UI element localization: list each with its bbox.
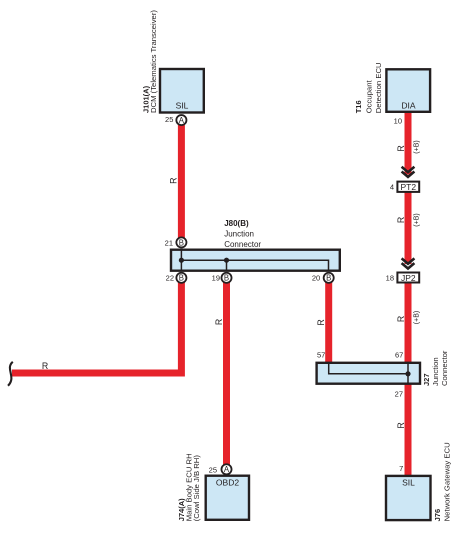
- junction connector J27: [317, 363, 420, 384]
- junction dot at J80 21-22: [179, 258, 184, 263]
- wire label (+B) (T16 to PT2): [413, 140, 420, 153]
- wire label R (JP2 to J27): [396, 316, 406, 322]
- svg-text:A: A: [179, 116, 185, 125]
- svg-text:Network Gateway ECU: Network Gateway ECU: [443, 442, 452, 521]
- svg-text:SIL: SIL: [176, 101, 189, 111]
- pin 57 of J27: [317, 351, 325, 360]
- wire R from J80 pin 22 down and left off-page: [12, 278, 181, 373]
- svg-text:J27: J27: [422, 373, 431, 386]
- wire R from J80 pin 19 to J74 OBD2 pin 25: [223, 278, 230, 466]
- pin 21 circle B of J80: [165, 237, 187, 247]
- label T16 Occupant Detection ECU: [354, 62, 383, 113]
- ECU box T16 DIA: [386, 69, 430, 112]
- svg-text:57: 57: [317, 351, 325, 360]
- svg-text:A: A: [224, 465, 230, 474]
- arrow into PT2: [402, 167, 415, 177]
- wire label R (pin 19 drop): [214, 319, 224, 325]
- J80 internal bus to pin 20: [181, 260, 328, 271]
- svg-text:DIA: DIA: [401, 101, 416, 111]
- svg-text:67: 67: [395, 351, 403, 360]
- svg-text:4: 4: [390, 182, 394, 191]
- svg-text:Connector: Connector: [440, 350, 449, 386]
- wire label R (horizontal wire): [42, 361, 48, 371]
- svg-text:JP2: JP2: [401, 273, 416, 283]
- svg-text:T16: T16: [354, 100, 363, 113]
- ECU box J101(A) SIL: [160, 69, 204, 113]
- junction connector J80(B): [171, 250, 340, 271]
- wire R from J80 pin 20 to J27 pin 57: [325, 278, 332, 363]
- ECU box J76 SIL: [386, 476, 431, 520]
- svg-text:J76: J76: [433, 509, 442, 522]
- svg-text:21: 21: [165, 238, 173, 247]
- wire label R (pin 20 drop): [316, 319, 326, 325]
- J80 internal wire 21-22: [180, 249, 182, 271]
- svg-text:B: B: [224, 274, 229, 283]
- svg-text:DCM (Telematics Transceiver): DCM (Telematics Transceiver): [149, 10, 158, 113]
- connector PT2 pin 4: [390, 182, 419, 193]
- svg-text:B: B: [326, 274, 331, 283]
- svg-text:(+B): (+B): [413, 311, 420, 324]
- J27 internal through wire 67-27: [407, 362, 409, 384]
- label J76 Network Gateway ECU: [433, 442, 452, 521]
- wire label R (J101 to J80): [168, 178, 178, 184]
- svg-text:20: 20: [312, 274, 320, 283]
- label J74(A) Main Body ECU RH (Cowl Side J/B RH): [177, 453, 201, 521]
- wire label R (PT2 to JP2): [396, 217, 406, 223]
- wire label (+B) (JP2 to J27): [413, 311, 420, 324]
- off-page break symbol: [8, 362, 13, 386]
- svg-text:R: R: [396, 217, 406, 223]
- svg-text:R: R: [396, 316, 406, 322]
- pin 7 of J76: [399, 464, 403, 473]
- svg-text:Occupant: Occupant: [365, 80, 374, 114]
- pin 25 circle A of J74: [209, 464, 232, 474]
- svg-text:R: R: [168, 178, 178, 184]
- junction dot at J80 pin 19: [224, 258, 229, 263]
- svg-text:R: R: [396, 145, 406, 151]
- svg-text:19: 19: [212, 274, 220, 283]
- svg-text:27: 27: [395, 389, 403, 398]
- svg-text:7: 7: [399, 464, 403, 473]
- svg-text:Detection ECU: Detection ECU: [374, 62, 383, 113]
- wire R (+B) from JP2 to J27 pin 67: [405, 283, 412, 363]
- pin 10 of T16: [394, 117, 402, 126]
- svg-text:R: R: [42, 361, 48, 371]
- svg-text:25: 25: [209, 465, 217, 474]
- svg-text:B: B: [179, 239, 184, 248]
- svg-text:Connector: Connector: [224, 240, 261, 249]
- pin 19 circle B of J80: [212, 273, 232, 283]
- svg-text:18: 18: [386, 273, 394, 282]
- pin 20 circle B of J80: [312, 273, 334, 283]
- svg-text:PT2: PT2: [401, 182, 417, 192]
- J80 internal drop to pin 19: [226, 260, 228, 271]
- svg-text:SIL: SIL: [402, 478, 415, 488]
- svg-text:R: R: [396, 422, 406, 428]
- wire R from J101 SIL pin 25 to J80 pin 21: [178, 121, 185, 240]
- svg-text:(Cowl Side J/B RH): (Cowl Side J/B RH): [192, 455, 201, 522]
- svg-text:R: R: [316, 319, 326, 325]
- wire R from J27 pin 27 to J76 SIL pin 7: [405, 383, 412, 476]
- junction dot in J27: [405, 371, 410, 376]
- pin 22 circle B of J80: [166, 273, 187, 283]
- svg-text:Junction: Junction: [431, 357, 440, 386]
- J27 internal wire from pin 57 to bus: [329, 362, 408, 374]
- wire label R (T16 to PT2): [396, 145, 406, 151]
- arrow into JP2: [402, 258, 415, 268]
- label J80(B) Junction Connector: [224, 219, 261, 249]
- pin 67 of J27: [395, 351, 403, 360]
- svg-text:J80(B): J80(B): [224, 219, 249, 228]
- svg-text:(+B): (+B): [413, 213, 420, 226]
- label J101(A) DCM (Telematics Transceiver): [142, 10, 158, 113]
- wire R (+B) from T16 DIA pin 10 to PT2: [405, 111, 412, 175]
- wire label (+B) (PT2 to JP2): [413, 213, 420, 226]
- svg-text:OBD2: OBD2: [216, 478, 239, 488]
- svg-text:Junction: Junction: [224, 229, 254, 238]
- svg-text:25: 25: [165, 115, 173, 124]
- ECU box J74(A) OBD2: [206, 476, 249, 520]
- wire R (+B) from PT2 to JP2: [405, 192, 412, 264]
- svg-text:R: R: [214, 319, 224, 325]
- svg-text:10: 10: [394, 117, 402, 126]
- wire label R (J27 to J76): [396, 422, 406, 428]
- label J27 Junction Connector: [422, 350, 449, 386]
- svg-text:B: B: [179, 274, 184, 283]
- svg-text:(+B): (+B): [413, 140, 420, 153]
- connector JP2 pin 18: [386, 273, 420, 284]
- svg-text:22: 22: [166, 274, 174, 283]
- pin 25 circle A of J101: [165, 115, 186, 125]
- pin 27 of J27: [395, 389, 403, 398]
